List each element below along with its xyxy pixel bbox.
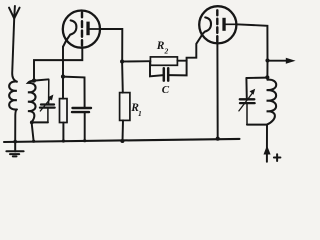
- capacitor Ck: [72, 108, 91, 141]
- wire cathode V1 down: [62, 47, 64, 77]
- node output dot: [265, 58, 269, 62]
- plus label: [274, 154, 281, 161]
- node Ck-bus dot: [83, 139, 86, 142]
- wire Cv2 top lead: [245, 78, 247, 99]
- svg-text:C: C: [162, 84, 170, 96]
- wire tank2 bottom: [247, 124, 267, 126]
- wire rail to tank top: [266, 61, 268, 78]
- node L2-bus dot: [32, 140, 35, 143]
- coil L2 (secondary winding, humps right): [28, 81, 36, 123]
- variable capacitor Cv2: [239, 89, 255, 125]
- tube V2 cathode: [202, 17, 211, 35]
- antenna: [9, 6, 20, 82]
- node grid junction dot: [32, 79, 36, 83]
- node V2-bus dot: [216, 137, 220, 141]
- wire anode V2 to rail: [236, 24, 267, 60]
- tube V1 anode: [86, 22, 89, 36]
- tube V1 cathode: [63, 20, 76, 46]
- node tank top dot: [265, 75, 269, 79]
- wire L2 bottom to bus: [32, 122, 34, 141]
- wire tank top: [246, 77, 267, 79]
- wire anode V1 to node A: [100, 29, 122, 62]
- node cathode junction dot: [61, 75, 65, 79]
- tube V2 envelope: [199, 6, 236, 43]
- wire V2 bottom lead to bus: [216, 43, 218, 138]
- ground bus: [4, 139, 240, 142]
- wire grid node to Cv1 top: [34, 79, 49, 80]
- svg-text:2: 2: [164, 47, 169, 56]
- resistor Rk: [60, 77, 68, 141]
- wire L1 bottom to bus: [15, 109, 17, 141]
- node L1-bus dot: [13, 140, 17, 144]
- ground symbol: [6, 142, 23, 157]
- wire node A to R2: [122, 60, 150, 62]
- resistor R2: [150, 57, 177, 65]
- wire grid lead (tube1 grid to tuned circuit): [34, 48, 82, 81]
- tube V2 grid (dashed): [216, 10, 218, 41]
- node Rk-bus dot: [62, 139, 65, 142]
- label R2: [156, 40, 169, 56]
- tube V1 grid (dashed): [81, 13, 83, 46]
- supply arrow (up): [264, 145, 271, 154]
- wire cathode node to Ck: [63, 77, 85, 108]
- tube V2 anode: [222, 18, 225, 31]
- wire tank1 bottom: [32, 121, 48, 123]
- node A dot: [120, 59, 124, 63]
- wire C branch left: [150, 61, 164, 76]
- wire rail to supply: [266, 125, 268, 162]
- wire R2 right lead: [177, 60, 186, 62]
- variable capacitor Cv1: [40, 79, 55, 122]
- node R1-bus dot: [120, 139, 124, 143]
- resistor R1: [120, 62, 130, 142]
- svg-text:R: R: [156, 40, 165, 52]
- wire C branch right: [168, 35, 202, 75]
- coil L1 (antenna winding, humps left): [9, 81, 17, 109]
- tube V1 envelope: [63, 11, 100, 48]
- svg-text:1: 1: [138, 109, 142, 118]
- coil L3 (output winding, humps right): [267, 80, 277, 125]
- label R1: [130, 102, 142, 118]
- node tank1 bottom dot: [30, 121, 34, 125]
- capacitor C: [164, 68, 168, 80]
- output arrow: [268, 60, 288, 62]
